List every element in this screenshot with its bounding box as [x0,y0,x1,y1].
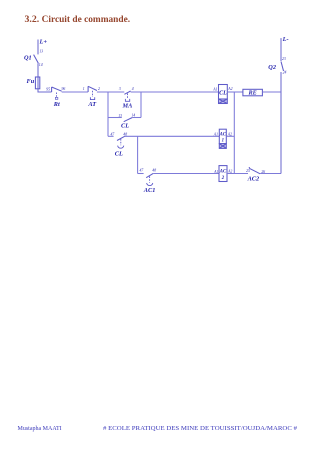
wire RE to right rail [262,91,281,93]
contact MA start pushbutton NO [124,91,130,101]
wire Rt to AT [62,91,88,93]
pin A1 of CL coil [212,87,217,91]
contact AC2 25-26 NC [249,167,260,174]
svg-text:95: 95 [46,87,50,91]
label Rt [53,101,60,108]
label MA [122,103,133,110]
svg-text:# ECOLE PRATIQUE DES MINE DE: # ECOLE PRATIQUE DES MINE DE TOUISSIT/OU… [103,426,297,432]
svg-text:13: 13 [39,50,43,54]
svg-text:Q1: Q1 [24,54,32,61]
label AT [87,101,97,108]
wire return vertical [233,92,235,174]
svg-text:CL: CL [121,123,129,130]
switch Q1 [24,54,38,63]
pin 48 of AC1 timed [152,168,156,172]
label AC1 [143,187,156,194]
svg-text:A1: A1 [213,170,218,174]
label CL aux [121,123,129,130]
label AC2 [247,175,260,182]
pin 24 of Q2 [283,70,287,74]
svg-text:A1: A1 [212,87,217,91]
svg-text:14: 14 [131,113,135,117]
svg-text:96: 96 [62,87,66,91]
wire branch right vertical [140,92,142,118]
title heading 3.2 Circuit de commande [25,14,131,25]
svg-text:25: 25 [246,169,250,173]
svg-text:4: 4 [132,87,134,91]
label CL timed [115,150,123,157]
wire branch CL left [108,117,122,119]
pin 25 of AC2 contact [246,169,250,173]
svg-text:48: 48 [152,168,156,172]
svg-text:CL: CL [115,150,123,157]
node L+ [39,38,48,45]
pin A1 of AC1 coil [213,133,218,137]
svg-text:A1: A1 [213,133,218,137]
wire AC2 coil to AC2 contact [227,173,248,175]
footer author name [18,426,62,432]
svg-text:3.2.: 3.2. [25,14,40,25]
coil AC1 [219,129,227,148]
wire rung2 left [108,135,114,137]
pin A2 of AC2 coil [227,170,232,174]
svg-text:CL: CL [219,91,227,97]
wire branch CL right [132,117,141,119]
wire AC1 coil to return vertical [226,135,234,137]
pin A2 of AC1 coil [227,133,232,137]
wire drop rung2 to rung3 [137,136,139,173]
svg-text:2: 2 [221,176,225,181]
wire CL coil to RE [227,91,243,93]
pin A1 of AC2 coil [213,170,218,174]
contact AC1 47-48 NO delayed [146,173,153,185]
svg-text:Mustapha MAATI: Mustapha MAATI [18,426,62,432]
svg-text:1: 1 [222,139,224,144]
wire AT to MA [97,91,124,93]
wire rung3 left [138,173,144,175]
wire right rail bottom [280,72,282,174]
wire AC2 contact to right rail [260,173,281,175]
pin 3 of MA [119,87,121,91]
svg-text:L+: L+ [39,38,48,45]
contact CL 47-48 NO delayed [117,136,125,148]
svg-text:Fu: Fu [27,78,35,85]
svg-text:14: 14 [39,63,43,67]
svg-text:3: 3 [119,87,121,91]
wire rung3 to AC2 coil [153,173,219,175]
svg-text:RE: RE [247,90,256,97]
wire junction drop under AT [107,92,109,136]
svg-text:AC: AC [219,170,227,175]
wire rung2 to AC1 coil [125,135,219,137]
pin 47 of CL timed [111,133,116,137]
svg-text:MA: MA [122,103,133,110]
svg-text:24: 24 [283,70,287,74]
pin 96 of Rt [62,87,66,91]
pin 13 of CL aux [118,114,122,118]
svg-text:2: 2 [98,87,100,91]
wire left rail top [37,40,39,55]
pin 14 of CL aux [131,113,135,117]
fuse Fu [27,77,40,89]
svg-text:1: 1 [83,87,85,91]
switch Q2 [268,62,283,72]
pin 1 of AT [83,87,85,91]
relay RE box [243,89,263,96]
pin 48 of CL timed [123,132,127,136]
svg-text:47: 47 [111,133,116,137]
wire Q1 to fuse [37,63,39,77]
wire MA to CL coil [131,91,219,93]
coil CL [219,85,228,104]
svg-text:A2: A2 [227,87,232,91]
svg-text:Rt: Rt [53,101,60,108]
svg-text:L-: L- [282,36,289,43]
pin 13 of Q1 [39,50,43,54]
svg-text:AC: AC [219,133,227,138]
pin 95 of Rt [46,87,50,91]
coil AC2 [219,166,227,182]
contact CL 13-14 NO [124,118,132,122]
svg-text:23: 23 [282,57,286,61]
svg-text:47: 47 [140,169,145,173]
pin 47 of AC1 timed [140,169,145,173]
node L- [282,36,289,43]
contact Rt thermal relay NC [52,87,62,99]
wire fuse to main rung corner [38,89,52,92]
svg-text:AT: AT [87,101,97,108]
pin 14 of Q1 [39,63,43,67]
pin A2 of CL coil [227,87,232,91]
svg-text:AC1: AC1 [143,187,156,194]
contact AT stop pushbutton NC [88,86,97,99]
footer school name [103,426,297,432]
pin 4 of MA [132,87,134,91]
pin 23 of Q2 [282,57,286,61]
svg-text:13: 13 [118,114,122,118]
svg-text:AC2: AC2 [247,175,260,182]
svg-text:Q2: Q2 [268,64,276,71]
wire right rail top [280,38,282,61]
svg-text:Circuit de commande.: Circuit de commande. [42,14,131,25]
pin 2 of AT [98,87,100,91]
pin 26 of AC2 contact [261,170,265,174]
